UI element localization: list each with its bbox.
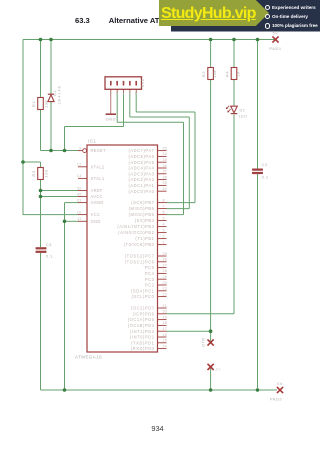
svg-text:LED: LED	[239, 115, 248, 119]
wire AGND to pin 31	[65, 203, 79, 222]
connector SV1 pin 5	[135, 81, 137, 96]
connector SV1 pin 1	[110, 81, 112, 96]
pin 19 (OC1A)PD5	[128, 315, 167, 322]
pin 23 (SDA)PC1	[131, 287, 167, 294]
pin 10 VCC	[77, 210, 100, 217]
pin 2 (T1)PB1	[135, 234, 166, 241]
svg-text:(SDA)PC1: (SDA)PC1	[131, 288, 155, 293]
wire reset net horizontal to RESET pin	[41, 150, 79, 152]
svg-text:SV1: SV1	[140, 78, 145, 87]
StudyHub banner olive ribbon	[159, 0, 269, 26]
pin 33 (ADC7)PA7	[128, 146, 167, 153]
pin 15 (TXD)PD1	[131, 339, 167, 346]
svg-text:PC3: PC3	[145, 277, 155, 282]
svg-text:GND: GND	[106, 117, 116, 122]
svg-text:(ADC5)PA5: (ADC5)PA5	[128, 160, 154, 165]
svg-text:0.1: 0.1	[46, 254, 53, 259]
connector SV1 pin 2	[116, 81, 118, 96]
svg-text:7: 7	[163, 204, 165, 208]
svg-text:(TXD)PD1: (TXD)PD1	[131, 340, 154, 345]
connector SV1 body	[105, 77, 142, 90]
svg-text:(SCK)PB7: (SCK)PB7	[131, 200, 154, 205]
wire GND to pin 11	[65, 220, 79, 222]
pin 29 (TOSC2)PC7	[125, 252, 167, 259]
pin 21 (OC2)PD7	[131, 304, 167, 311]
resistor R4 1k	[225, 68, 241, 80]
svg-text:(TOSC1)PC6: (TOSC1)PC6	[125, 259, 155, 264]
svg-text:38: 38	[163, 175, 168, 179]
banner bullet: plagiarism free	[265, 23, 318, 28]
pin 12 XTAL2	[77, 163, 105, 170]
junction dot 9	[39, 189, 43, 193]
svg-text:(T1)PB1: (T1)PB1	[135, 236, 154, 241]
banner bullet: on-time delivery	[265, 14, 308, 19]
svg-text:30: 30	[77, 192, 82, 196]
svg-text:15: 15	[163, 339, 168, 343]
svg-text:(ADC3)PA3: (ADC3)PA3	[128, 171, 154, 176]
wire VCC to IC pin 10	[23, 214, 79, 216]
svg-text:31: 31	[77, 198, 82, 202]
wire C2 bottom to 0V rail	[257, 173, 259, 390]
svg-text:(SCL)PC0: (SCL)PC0	[131, 294, 154, 299]
junction dot 7	[49, 149, 53, 153]
connector SV1 pin 4	[129, 81, 131, 96]
pad PAD1 5V	[269, 31, 281, 51]
svg-text:9: 9	[79, 146, 81, 150]
svg-text:0V: 0V	[216, 367, 221, 371]
pin 9 RESET	[78, 146, 106, 153]
svg-text:3: 3	[122, 92, 124, 96]
wire SV1 pin4 to MISO PB6	[130, 93, 190, 209]
svg-text:19: 19	[163, 315, 168, 319]
junction dot 12	[209, 329, 213, 333]
wire SV1 pin2 to MOSI PB5	[117, 93, 183, 215]
svg-text:0.1: 0.1	[262, 174, 269, 179]
connector SV1 pin 3	[122, 81, 124, 96]
svg-text:D1: D1	[53, 90, 57, 96]
svg-text:36: 36	[163, 164, 168, 168]
svg-text:37: 37	[163, 170, 168, 174]
label ATMEGA16	[75, 355, 102, 360]
junction dot 14	[209, 388, 213, 392]
svg-text:28: 28	[163, 258, 168, 262]
svg-text:GND: GND	[91, 219, 101, 224]
junction dot 10	[39, 195, 43, 199]
wire D1 bottom to reset net	[50, 102, 52, 151]
svg-text:R2: R2	[201, 71, 206, 77]
svg-text:(SS)PB4: (SS)PB4	[135, 218, 155, 223]
wire C3 bottom to 0V rail	[40, 253, 42, 390]
svg-text:PAD2: PAD2	[270, 397, 282, 402]
svg-text:13: 13	[77, 174, 82, 178]
svg-text:(ADC1)PA1: (ADC1)PA1	[128, 183, 154, 188]
capacitor C2 0.1	[252, 162, 269, 179]
pin 7 (MISO)PB6	[129, 204, 167, 211]
diode D1 1N4148	[48, 85, 62, 104]
pin 6 (MOSI)PB5	[129, 210, 167, 217]
svg-text:5: 5	[135, 92, 137, 96]
pin 8 (SCK)PB7	[131, 198, 166, 205]
svg-text:18: 18	[163, 321, 168, 325]
svg-text:16: 16	[163, 333, 168, 337]
svg-text:D2: D2	[240, 109, 246, 113]
wire 0V bottom rail	[41, 389, 278, 391]
resistor R1 10k	[31, 98, 48, 110]
pin 39 (ADC1)PA1	[128, 181, 167, 188]
wire 5V top rail	[23, 39, 258, 41]
svg-text:(AIN1/INT2)PB3: (AIN1/INT2)PB3	[117, 224, 154, 229]
junction dot 3	[209, 38, 213, 42]
junction dot 4	[232, 38, 236, 42]
wire SV1 pin3 to reset net	[64, 127, 66, 151]
svg-text:DTR: DTR	[201, 337, 205, 346]
pin 28 (TOSC1)PC6	[125, 258, 167, 265]
svg-text:1: 1	[163, 240, 165, 244]
svg-text:AGND: AGND	[91, 200, 104, 205]
svg-text:ATMEGA16: ATMEGA16	[75, 355, 102, 360]
wire DTR node to PD3 pin 17	[167, 330, 211, 332]
svg-text:(ICP)PD6: (ICP)PD6	[133, 311, 155, 316]
wire AVCC tap to pin 30	[41, 196, 79, 198]
wire top rail to PAD1	[258, 39, 276, 41]
junction dot 11	[63, 220, 67, 224]
pin 36 (ADC4)PA4	[128, 164, 167, 171]
svg-text:AVCC: AVCC	[91, 194, 103, 199]
junction dot 1	[39, 38, 43, 42]
svg-text:32: 32	[77, 186, 82, 190]
svg-text:100: 100	[43, 169, 48, 177]
pin 37 (ADC3)PA3	[128, 170, 167, 177]
svg-text:R3: R3	[31, 170, 36, 176]
svg-text:23: 23	[163, 287, 168, 291]
svg-text:(ADC0)PA0: (ADC0)PA0	[128, 189, 154, 194]
svg-text:AREF: AREF	[91, 188, 103, 193]
capacitor C3 0.1	[36, 242, 54, 258]
svg-text:4: 4	[163, 222, 165, 226]
wire R4 top	[233, 40, 235, 68]
svg-text:(ADC6)PA6: (ADC6)PA6	[128, 154, 154, 159]
svg-text:PC2: PC2	[145, 283, 155, 288]
svg-text:6: 6	[163, 210, 165, 214]
pad bottom near 0V rail	[208, 364, 222, 372]
banner bullet: experienced writers	[265, 5, 316, 10]
junction dot 13	[63, 388, 67, 392]
wire R4 bottom to LED	[233, 80, 235, 106]
svg-text:35: 35	[163, 158, 168, 162]
StudyHub banner navy panel	[171, 0, 320, 32]
svg-text:14: 14	[163, 344, 168, 348]
wire R1 bottom to reset net	[40, 110, 42, 151]
svg-text:26: 26	[163, 269, 168, 273]
svg-text:R4: R4	[225, 71, 230, 77]
svg-text:PC4: PC4	[145, 271, 155, 276]
svg-text:IC1: IC1	[88, 139, 97, 144]
svg-text:34: 34	[163, 152, 168, 156]
svg-text:(ADC2)PA2: (ADC2)PA2	[128, 177, 154, 182]
wire LED cathode down	[233, 115, 235, 314]
wire AREF tap to pin 32	[41, 190, 79, 192]
connector SV1 name label	[140, 78, 145, 87]
wire SV1 pin5 to SCK PB7	[136, 93, 195, 203]
svg-text:5: 5	[163, 216, 165, 220]
wire rail to R3 top	[23, 162, 41, 168]
pin 24 PC2	[145, 281, 167, 288]
wire SV1 pin3 down	[123, 93, 125, 127]
svg-text:10k: 10k	[212, 70, 217, 78]
junction dot 2	[49, 38, 53, 42]
svg-text:(T0/XCK)PB0: (T0/XCK)PB0	[124, 242, 155, 247]
wire SV1 pin3 left	[65, 126, 124, 128]
svg-text:(ADC4)PA4: (ADC4)PA4	[128, 166, 154, 171]
junction dot 15	[256, 388, 260, 392]
wire LED net to PD6 pin 20	[167, 313, 235, 315]
svg-text:17: 17	[163, 327, 168, 331]
svg-text:(OC2)PD7: (OC2)PD7	[131, 306, 155, 311]
pin 5 (SS)PB4	[135, 216, 167, 223]
svg-text:33: 33	[163, 146, 168, 150]
svg-text:(OC1B)PD4: (OC1B)PD4	[128, 323, 155, 328]
svg-text:8: 8	[163, 198, 165, 202]
wire PAD1 rail down to C2	[257, 40, 259, 169]
pad PAD2 0V	[270, 381, 283, 402]
wire pad stub to 0V rail	[210, 367, 212, 390]
page number 934	[145, 424, 170, 433]
wire R2 bottom to DTR node	[210, 80, 212, 343]
pin 18 (OC1B)PD4	[128, 321, 167, 328]
svg-text:PAD1: PAD1	[269, 46, 281, 51]
junction dot 5	[256, 38, 260, 42]
pin 1 (T0/XCK)PB0	[124, 240, 167, 247]
svg-text:R1: R1	[31, 101, 36, 107]
svg-text:(INT0)PD2: (INT0)PD2	[130, 335, 155, 340]
svg-text:3: 3	[163, 228, 165, 232]
pin 31 AGND	[77, 198, 104, 205]
pin 25 PC3	[145, 275, 167, 282]
ground symbol GND under SV1 pin 1	[106, 93, 116, 122]
svg-text:10: 10	[77, 210, 82, 214]
pin 22 (SCL)PC0	[131, 292, 167, 299]
wire left 5V rail vertical	[22, 40, 24, 216]
svg-text:(INT1)PD3: (INT1)PD3	[130, 329, 155, 334]
svg-text:25: 25	[163, 275, 168, 279]
svg-text:40: 40	[163, 187, 168, 191]
resistor R3 100	[31, 168, 48, 180]
svg-text:0V: 0V	[277, 381, 283, 386]
wire R1 top	[40, 40, 42, 98]
svg-text:PC5: PC5	[145, 265, 155, 270]
junction dot 6	[21, 160, 25, 164]
svg-text:C2: C2	[262, 162, 268, 167]
StudyHub.vip logo text	[161, 5, 256, 23]
svg-text:XTAL1: XTAL1	[91, 176, 105, 181]
svg-text:RESET: RESET	[91, 148, 107, 153]
svg-text:(MOSI)PB5: (MOSI)PB5	[129, 212, 155, 217]
wire R2 top	[210, 40, 212, 68]
svg-text:(TOSC2)PC7: (TOSC2)PC7	[125, 254, 155, 259]
pin 13 XTAL1	[77, 174, 105, 181]
pin 35 (ADC5)PA5	[128, 158, 167, 165]
pad DTR	[201, 337, 213, 346]
svg-text:27: 27	[163, 263, 168, 267]
svg-text:(OC1A)PD5: (OC1A)PD5	[128, 317, 155, 322]
svg-text:39: 39	[163, 181, 168, 185]
pin 20 (ICP)PD6	[133, 310, 168, 317]
pin 40 (ADC0)PA0	[128, 187, 167, 194]
label IC1	[88, 139, 97, 144]
junction dot 8	[63, 149, 67, 153]
wire D1 top	[50, 40, 52, 95]
svg-text:(MISO)PB6: (MISO)PB6	[129, 206, 155, 211]
resistor R2 10k	[201, 68, 217, 80]
pin 34 (ADC6)PA6	[128, 152, 167, 159]
pin 16 (INT0)PD2	[130, 333, 167, 340]
svg-text:1k: 1k	[236, 71, 241, 76]
svg-text:VCC: VCC	[91, 212, 101, 217]
svg-text:C3: C3	[46, 242, 52, 247]
svg-text:XTAL2: XTAL2	[91, 164, 105, 169]
svg-text:11: 11	[77, 217, 81, 221]
pin 27 PC5	[145, 263, 167, 270]
svg-text:(RXD)PD0: (RXD)PD0	[131, 346, 155, 351]
op IC1 ATMEGA16 box	[87, 145, 158, 352]
svg-text:1N4148: 1N4148	[58, 85, 62, 104]
svg-text:4: 4	[129, 92, 131, 96]
wire AGND down to 0V rail	[64, 221, 66, 390]
svg-text:12: 12	[77, 163, 82, 167]
svg-text:(ADC7)PA7: (ADC7)PA7	[128, 148, 154, 153]
svg-text:2: 2	[163, 234, 165, 238]
svg-text:21: 21	[163, 304, 168, 308]
pin 17 (INT1)PD3	[130, 327, 167, 334]
LED D2	[226, 106, 247, 119]
pin 32 AREF	[77, 186, 103, 193]
pin 30 AVCC	[77, 192, 103, 199]
pin 4 (AIN1/INT2)PB3	[117, 222, 166, 229]
svg-text:2: 2	[116, 92, 118, 96]
pin 3 (AIN0/OC0)PB2	[118, 228, 166, 235]
svg-text:24: 24	[163, 281, 168, 285]
section heading 63.3	[75, 16, 227, 25]
pin 38 (ADC2)PA2	[128, 175, 167, 182]
pin 14 (RXD)PD0	[131, 344, 167, 351]
pin 26 PC4	[145, 269, 167, 276]
pin 11 GND	[77, 217, 101, 224]
svg-text:22: 22	[163, 292, 168, 296]
wire R3 bottom through AREF/AVCC taps	[40, 180, 42, 248]
svg-text:(AIN0/OC0)PB2: (AIN0/OC0)PB2	[118, 230, 154, 235]
svg-text:20: 20	[163, 310, 168, 314]
svg-text:29: 29	[163, 252, 168, 256]
